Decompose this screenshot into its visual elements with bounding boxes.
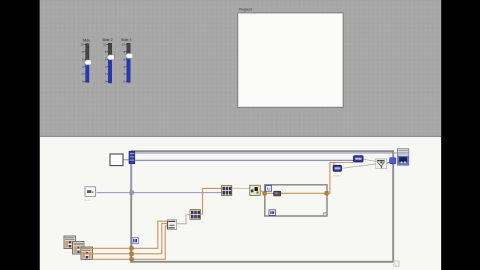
wire scale node to array G2: [177, 215, 190, 224]
build array node: [129, 151, 135, 163]
wire DBL to select: [363, 159, 376, 161]
panel bottom edge line: [40, 136, 441, 137]
slider 1 scale numbers: [80, 42, 84, 83]
wire select to tunnel: [387, 162, 390, 164]
svg-text:10: 10: [80, 42, 84, 46]
wire inside for loop: [266, 192, 325, 194]
svg-text:Slide 3: Slide 3: [121, 38, 131, 42]
slider 3 scale numbers: [122, 42, 126, 83]
wire from build array down: [131, 164, 133, 193]
wire constant to build array: [124, 159, 130, 161]
select node: [376, 159, 387, 169]
white picture constant node: [110, 154, 123, 166]
tunnel 2 on loop border: [130, 252, 133, 255]
for loop iteration terminal i: [269, 210, 275, 216]
wire from constant to array node G1: [96, 192, 221, 194]
svg-text:10: 10: [122, 42, 126, 46]
slider 3 track: [127, 43, 130, 82]
svg-text:Index: Index: [334, 173, 342, 177]
front panel gray background with grid: [40, 0, 441, 137]
array node G1: [221, 186, 231, 196]
tunnel for constant wire: [130, 191, 133, 194]
tunnel 3 on loop border: [130, 258, 133, 261]
wire stub down to 123 bullet: [333, 162, 335, 166]
wire for loop to 123 bullet: [328, 162, 336, 193]
wire VI to for loop: [260, 191, 264, 194]
numeric constant 1.0: [85, 187, 96, 197]
svg-text:N: N: [267, 186, 270, 191]
while loop border: [131, 151, 393, 262]
multiply node inside for loop: [274, 191, 281, 196]
slider 3 thumb: [125, 53, 133, 58]
slider terminal 1: [64, 236, 76, 249]
picture indicator terminal: [397, 149, 408, 165]
progress picture indicator: [238, 13, 344, 108]
right tunnel of for loop: [325, 192, 328, 195]
wire W1 from terminal 1: [75, 221, 168, 248]
slider 2 thumb: [107, 55, 115, 60]
wire A (picture wire to draw icon): [135, 152, 397, 154]
subVI icon: [250, 185, 260, 195]
letterbox soft edge right: [441, 0, 442, 270]
slider terminal 3: [81, 247, 93, 260]
slider 3 scale ticks: [125, 44, 126, 81]
tunnel 1 on loop border: [130, 247, 133, 250]
svg-text:10: 10: [103, 42, 107, 46]
bottom right tunnel of for loop: [324, 213, 327, 216]
slider 2 scale ticks: [107, 44, 108, 81]
scale node: [167, 220, 177, 230]
svg-text:Slide 2: Slide 2: [102, 38, 112, 42]
slider terminal 2: [73, 242, 85, 255]
wire 123 to select: [342, 164, 376, 168]
while loop iteration terminal: [132, 238, 138, 244]
block diagram white background: [40, 137, 441, 270]
slider 1 scale ticks: [84, 44, 85, 81]
slider 1 track: [86, 44, 89, 83]
conversion bullet DBL: [353, 156, 363, 163]
slider 2 scale numbers: [103, 42, 107, 83]
for loop border: [265, 185, 327, 216]
letterbox soft edge left: [39, 0, 40, 270]
wire W3 from terminal 3: [92, 226, 168, 259]
while loop condition terminal (faint): [394, 261, 399, 266]
slider 1 thumb: [84, 60, 92, 65]
svg-text:delta: delta: [85, 198, 92, 202]
slider 2 track: [108, 43, 111, 83]
for loop count terminal N: [266, 186, 272, 192]
conversion bullet 123: [333, 165, 342, 171]
wire B (picture wire to convert bullet): [135, 159, 353, 161]
wire from loop corner to DBL bullet: [330, 161, 354, 163]
wire G1 to VI icon: [232, 187, 250, 189]
wire W2 from terminal 2: [83, 224, 167, 254]
wire G2 to G1: [200, 188, 221, 214]
left tunnel of for loop: [263, 192, 266, 195]
array node G2: [190, 210, 200, 220]
svg-text:Progress: Progress: [239, 8, 253, 12]
blue tunnel on while loop border: [389, 157, 396, 164]
